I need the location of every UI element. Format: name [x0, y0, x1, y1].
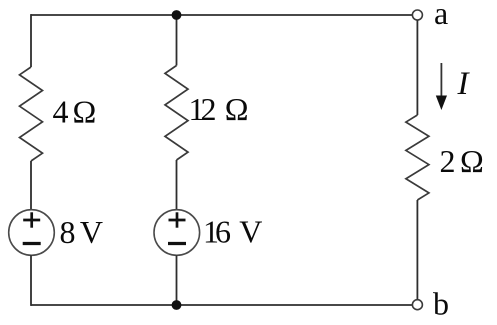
wire top bus — [31, 14, 412, 16]
svg-text:12 Ω: 12 Ω — [189, 91, 248, 127]
terminal a — [412, 10, 422, 20]
voltage source 8 V minus sign — [23, 242, 41, 245]
resistor 4 Ohm — [20, 67, 43, 161]
svg-text:2 Ω: 2 Ω — [440, 143, 484, 179]
voltage source 16 V plus sign — [169, 212, 186, 227]
svg-text:16 V: 16 V — [203, 213, 262, 249]
terminal b — [412, 300, 422, 310]
svg-text:4 Ω: 4 Ω — [53, 93, 97, 129]
junction dot top — [172, 10, 182, 20]
wire bottom bus — [31, 304, 412, 306]
svg-text:I: I — [457, 66, 471, 102]
wire right branch bottom — [416, 200, 418, 300]
wire middle branch bottom stub — [176, 255, 178, 305]
wire middle branch middle — [176, 160, 178, 210]
svg-text:a: a — [434, 0, 448, 31]
wire middle branch top stub — [176, 15, 178, 66]
wire left branch middle — [30, 161, 32, 210]
wire right branch top — [416, 20, 418, 115]
svg-text:b: b — [433, 285, 449, 321]
voltage source 16 V circle — [154, 210, 200, 256]
junction dot bottom — [172, 300, 182, 310]
voltage source 8 V circle — [9, 210, 55, 256]
wire left branch top stub — [30, 14, 32, 67]
current arrow I — [436, 63, 447, 110]
svg-text:8 V: 8 V — [60, 214, 104, 250]
wire left branch bottom stub — [30, 255, 32, 306]
voltage source 8 V plus sign — [23, 212, 40, 227]
resistor 2 Ohm — [406, 115, 429, 200]
voltage source 16 V minus sign — [168, 242, 186, 245]
resistor 12 Ohm — [165, 66, 188, 161]
